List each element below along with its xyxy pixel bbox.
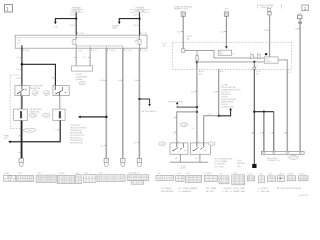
svg-text:0-4: 0-4 (118, 80, 121, 82)
svg-text:SB : SKY: SB : SKY (206, 191, 215, 193)
connector symbol feed D (224, 12, 228, 16)
svg-text:3: 3 (54, 84, 55, 86)
svg-text:5: 5 (19, 84, 20, 86)
wire x263.9 down (263, 112, 265, 152)
svg-text:0-2: 0-2 (173, 132, 176, 134)
fuse feed-C inside (182, 49, 185, 52)
connector table C-37 subrow (131, 181, 143, 185)
svg-text:O : OR: O : OR (230, 188, 237, 190)
oval label left of switch (159, 142, 166, 146)
wire vertical x122.8 (122, 48, 124, 158)
table A-03X inner relay mark (8, 176, 11, 178)
junction block small box (267, 9, 270, 12)
relay coil left box (14, 109, 28, 120)
svg-text:F2: F2 (257, 53, 259, 55)
svg-text:KEYLESS ENTRY: KEYLESS ENTRY (168, 101, 184, 103)
svg-text:L-1: L-1 (56, 129, 59, 131)
node junction x254.3 y61.9 (253, 61, 255, 63)
symbol coil mark left (32, 90, 38, 95)
fuse F2 inside J/B (138, 39, 141, 44)
wire feed-A vertical (75, 12, 77, 35)
label exit x122 (123, 49, 125, 51)
svg-text:C-36: C-36 (98, 172, 102, 174)
svg-text:C-41: C-41 (186, 173, 190, 175)
wire x273.8 down (273, 112, 275, 152)
relay coil right box (53, 109, 65, 120)
svg-text:C-37 (4B) n-n: C-37 (4B) n-n (128, 172, 139, 174)
wire x196.9 down to switch (196, 69, 198, 143)
node black mark (265, 53, 267, 55)
oval label left (29, 113, 36, 117)
svg-text:C-30: C-30 (17, 173, 21, 175)
symbol coil mark right (44, 90, 50, 95)
capacitor noise condenser box (72, 66, 93, 71)
svg-text:C-2: C-2 (210, 143, 213, 145)
svg-text:n-n: n-n (198, 151, 200, 153)
svg-text:C-44*: C-44* (233, 173, 238, 175)
svg-text:C-3: C-3 (76, 172, 79, 174)
svg-text:RR WDW DEF sw: RR WDW DEF sw (142, 111, 158, 113)
svg-text:C-31: C-31 (93, 50, 97, 52)
svg-text:(B): (B) (187, 38, 190, 40)
component boundary dashed (relay box) (10, 74, 21, 76)
svg-text:LG : LIGHT GREEN: LG : LIGHT GREEN (179, 188, 198, 190)
wire branch to left switch (177, 112, 197, 143)
wire x254.3 down (253, 69, 255, 163)
node junction x196.9 y62.2 (196, 61, 198, 63)
svg-text:1 C-32: 1 C-32 (142, 50, 148, 52)
svg-text:(%): (%) (18, 43, 21, 45)
svg-text:1 C-30: 1 C-30 (125, 50, 131, 52)
ground body (252, 164, 256, 168)
wire internal bus inside J/B (75, 35, 77, 39)
wire vertical x139.4 (138, 48, 140, 158)
component display unit strip (261, 151, 304, 154)
switch right box (190, 143, 210, 154)
svg-text:C-35: C-35 (84, 172, 88, 174)
wire x218.7 down (218, 69, 220, 116)
fuse F1 inside J/B (73, 39, 76, 44)
node junction x106.3 y116.9 (105, 116, 108, 119)
svg-text:G : GREEN-R: G : GREEN-R (179, 191, 192, 193)
svg-text:C-47: C-47 (268, 174, 272, 176)
wire feed-A branch to arrow (55, 19, 76, 22)
wire feed-B branch to arrow (119, 19, 139, 22)
wire branch to down arrow (139, 99, 149, 104)
svg-text:A-1: A-1 (81, 82, 84, 85)
wire horizontal y111.7 (254, 111, 273, 113)
wire feed D (225, 16, 227, 46)
svg-text:F1: F1 (250, 53, 252, 55)
svg-text:WIND: WIND (112, 28, 117, 30)
box MU inside dashed (218, 50, 231, 55)
svg-text:W: RR WDW DEF SW: W: RR WDW DEF SW (214, 158, 232, 160)
svg-text:C-49 A: C-49 A (287, 172, 294, 175)
page marker 1 (5, 5, 13, 12)
wire right switch to ground bus (199, 154, 201, 162)
junction block J/B (15, 35, 147, 48)
svg-text:C-13: C-13 (292, 157, 296, 159)
node junction feed-B (139, 18, 141, 20)
svg-text:C-48 H: C-48 H (278, 173, 285, 175)
fuse right-1 (251, 55, 253, 59)
svg-text:0-1: 0-1 (83, 57, 86, 59)
wire branch to right relay (22, 64, 56, 85)
svg-text:C-45: C-45 (248, 174, 252, 176)
svg-text:0-4: 0-4 (101, 145, 104, 147)
svg-text:0-4: 0-4 (134, 143, 137, 145)
wire J/B to condenser left (75, 48, 77, 66)
svg-text:1: 1 (300, 156, 301, 158)
svg-text:2Y-R: 2Y-R (133, 25, 138, 27)
relay contact left box (15, 86, 29, 96)
label connector C-30 exit (22, 49, 24, 51)
oval label C-13 (289, 156, 298, 160)
svg-text:OFF : NORMAL: OFF : NORMAL (214, 160, 227, 163)
label connector C-32 at J/B entry (140, 32, 142, 34)
svg-text:0-2: 0-2 (173, 118, 176, 120)
node junction x196.9 y111.9 (196, 111, 198, 113)
svg-text:1: 1 (264, 156, 265, 158)
wire fuse output right (185, 50, 264, 58)
label exit x139 (140, 49, 142, 51)
svg-text:B : RR WDW: B : RR WDW (214, 164, 225, 166)
wire feed C (182, 16, 184, 49)
svg-text:Y : YELLOW: Y : YELLOW (258, 191, 270, 193)
connector symbol feed F (298, 15, 302, 19)
svg-text:0-2: 0-2 (195, 158, 198, 160)
wire left switch to ground bus (179, 154, 181, 162)
svg-text:P/W: P/W (4, 138, 8, 140)
svg-text:1: 1 (6, 7, 9, 13)
svg-text:0-2R: 0-2R (208, 114, 213, 116)
svg-text:C-50 B: C-50 B (299, 173, 306, 175)
node junction x196.9 y107.1 (196, 106, 198, 108)
svg-text:C-42(4): C-42(4) (205, 173, 212, 175)
wire branch to up arrow x177.2 (177, 106, 197, 107)
wire box to x287.3 (278, 60, 287, 69)
svg-text:V : VIOLET: V : VIOLET (258, 188, 269, 190)
svg-text:1-DISPLAY (M): 1-DISPLAY (M) (221, 105, 234, 108)
svg-text:2Y-R: 2Y-R (133, 15, 138, 17)
svg-text:C-46: C-46 (259, 174, 263, 176)
svg-text:(B): (B) (256, 74, 259, 76)
svg-text:ON : PUSH: ON : PUSH (214, 166, 224, 168)
wire feed E (269, 15, 271, 57)
connector J-11 (253, 67, 256, 69)
node junction x218.7 y115.8 (218, 115, 220, 117)
oval label C-30 mid (22, 129, 24, 131)
oval label right of switch (208, 142, 215, 146)
svg-text:1 C-30: 1 C-30 (109, 50, 115, 52)
svg-text:C-40: C-40 (177, 173, 181, 175)
wire vertical x106.3 (105, 48, 107, 158)
label exit x106 (107, 49, 109, 51)
svg-text:7: 7 (71, 41, 72, 43)
svg-text:TIMER (2B): TIMER (2B) (30, 111, 40, 113)
svg-text:BR: BROWN: BR: BROWN (162, 191, 174, 193)
svg-text:FUSE 4: FUSE 4 (266, 61, 272, 63)
svg-text:REFER TO 54-2: REFER TO 54-2 (174, 9, 188, 11)
svg-text:0-5: 0-5 (51, 78, 54, 80)
svg-text:C-05: C-05 (54, 26, 58, 28)
wire drop to connector J-11 (253, 62, 255, 67)
oval label C-28 (180, 123, 188, 127)
node circle symbol (79, 82, 85, 86)
junction block dashed boundary (172, 42, 291, 69)
connector bottom x106.3 (104, 158, 108, 162)
svg-text:n-n: n-n (178, 151, 180, 153)
svg-text:C-28: C-28 (160, 143, 164, 145)
svg-text:GR : GRAY: GR : GRAY (206, 187, 217, 190)
svg-text:B : BLACK: B : BLACK (162, 187, 172, 190)
svg-text:0-4: 0-4 (135, 80, 138, 82)
wire branch left to switch (204, 116, 219, 143)
svg-text:REL 1: REL 1 (219, 54, 224, 56)
wire main left power x21.9 (21, 45, 23, 158)
wire contact to coil left (20, 96, 22, 110)
svg-text:0-1: 0-1 (17, 78, 20, 80)
node junction x139.4 y98.9 (138, 98, 140, 100)
svg-text:C-30: C-30 (157, 173, 161, 175)
svg-text:C-4: C-4 (219, 174, 222, 176)
node junction x263.9 (263, 111, 265, 113)
svg-text:L : BLUE: L : BLUE (222, 188, 231, 190)
svg-text:0-1: 0-1 (17, 57, 20, 59)
wire feed-B vertical (139, 12, 141, 35)
svg-text:(B): (B) (199, 74, 202, 76)
svg-text:C-30: C-30 (28, 130, 32, 132)
svg-text:2: 2 (304, 6, 307, 12)
connector bottom x122.8 (121, 158, 125, 162)
svg-text:(24-37): (24-37) (180, 168, 186, 170)
svg-text:SB : SKY BLUE W: WHITE: SB : SKY BLUE W: WHITE (277, 188, 302, 190)
svg-text:8: 8 (198, 141, 199, 143)
node junction x21.9 y64.3 (21, 63, 24, 66)
fuse right-2 (258, 55, 260, 59)
svg-text:(2B): (2B) (237, 166, 241, 168)
fuse tap vertical x197 (196, 50, 198, 55)
svg-text:C-30: C-30 (44, 115, 48, 117)
svg-text:P : PINK: P : PINK (237, 188, 245, 190)
svg-text:C-30: C-30 (31, 115, 35, 117)
wire coil-right down + thick run to left arrow (11, 120, 61, 141)
wire contact to coil right (59, 96, 61, 110)
svg-text:A-31: A-31 (220, 70, 224, 73)
svg-text:2-0: 2-0 (213, 92, 216, 94)
svg-text:CONNECTOR |: CONNECTOR | (267, 160, 281, 162)
svg-text:(DIESEL): (DIESEL) (76, 79, 84, 81)
wire J/B to condenser right (89, 48, 91, 66)
connector bottom x139.4 (137, 158, 141, 162)
label exit x90 (90, 49, 92, 51)
wire thick branch left w/ arrow (81, 116, 107, 118)
svg-text:2: 2 (178, 141, 179, 143)
svg-text:W : WHT: W : WHT (237, 191, 246, 193)
connector symbol feed E (268, 12, 271, 15)
svg-text:0-1: 0-1 (17, 69, 20, 71)
oval label right (43, 113, 50, 117)
wire bus y61.9 (196, 61, 198, 70)
svg-text:F:2: F:2 (135, 42, 137, 44)
wire feed F (299, 19, 301, 152)
connector symbol feed C (181, 12, 185, 16)
wire branch right up arrow (219, 110, 231, 115)
page marker 2 (302, 5, 308, 11)
ground bus (170, 161, 209, 163)
svg-text:A-03X: A-03X (4, 172, 10, 175)
svg-text:C-28: C-28 (182, 124, 186, 126)
relay contact right box (53, 86, 69, 96)
wire x287.3 down (286, 69, 288, 151)
node junction feed-A (75, 18, 77, 20)
svg-text:RECEIVER (B): RECEIVER (B) (70, 143, 83, 145)
svg-text:C-33(4): C-33(4) (58, 173, 65, 175)
svg-text:2: 2 (61, 98, 62, 100)
connector dots feed F (298, 22, 299, 24)
svg-text:RELAY (2B): RELAY (2B) (30, 87, 40, 90)
connector bottom left x21.2 (19, 158, 23, 162)
svg-text:J-03: J-03 (225, 8, 229, 10)
wire coil-left down to connector (20, 120, 22, 158)
table C-48 dot (280, 177, 282, 179)
svg-text:C-31: C-31 (78, 50, 82, 52)
svg-text:C-32 *: C-32 * (37, 173, 43, 175)
svg-text:Y : YEL: Y : YEL (222, 191, 230, 193)
label connector C-30 at J/B entry (77, 32, 79, 34)
node junction x254.3 y111.7 (253, 111, 255, 113)
svg-text:0-4-0: 0-4-0 (100, 80, 104, 82)
switch left box (170, 143, 188, 154)
svg-text:AC30574B: AC30574B (299, 194, 308, 197)
box IOD inside dashed (264, 57, 278, 63)
